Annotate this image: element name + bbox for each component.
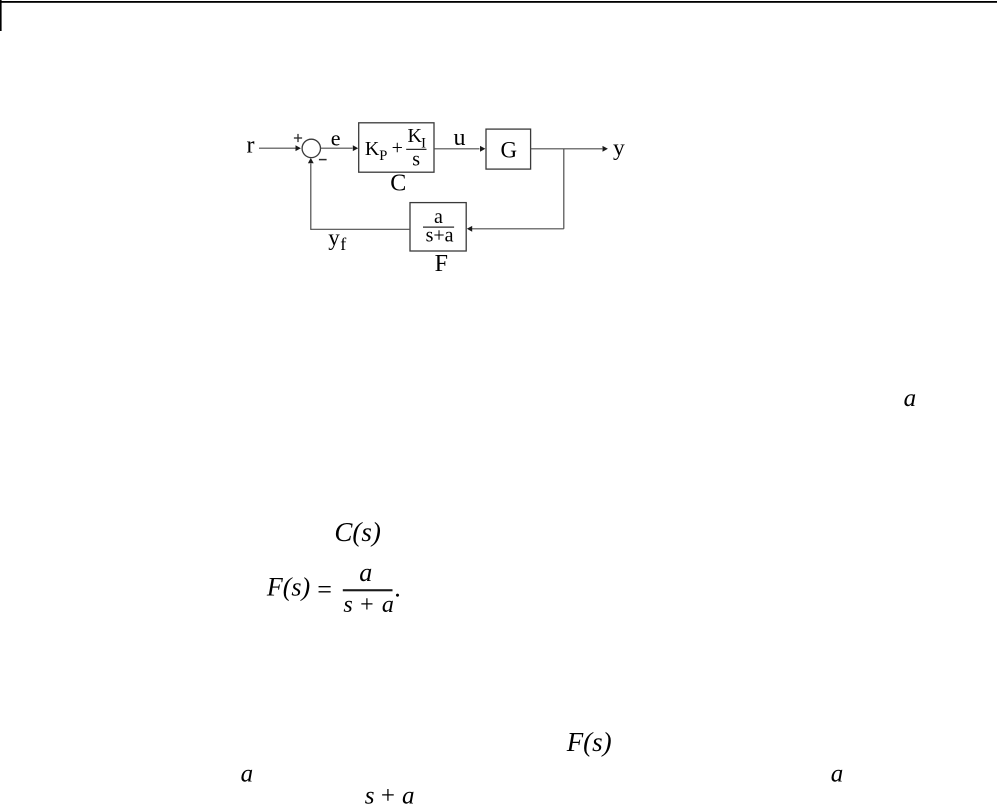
wire r to summer [259,145,301,151]
svg-text:F: F [435,251,448,277]
minus sign at summer [319,159,327,161]
svg-text:s+a: s+a [343,592,394,618]
svg-text:y: y [613,135,625,161]
wire branch junction down [563,149,565,229]
page top rule [0,1,997,3]
svg-text:F(s): F(s) [566,727,612,757]
block C rectangle [359,123,434,172]
svg-text:s: s [412,149,420,171]
wire C to G [434,146,485,152]
feedback wire into F [467,226,564,232]
block C formula fraction bar [406,148,426,150]
svg-text:.: . [394,573,401,602]
page left edge tick [0,0,2,31]
wire summer to C [321,145,359,151]
block G rectangle [486,129,531,169]
svg-text:r: r [247,133,255,159]
svg-text:a: a [359,558,372,587]
svg-text:K: K [365,138,380,160]
svg-text:C(s): C(s) [334,517,381,547]
svg-text:a: a [831,760,844,787]
svg-text:P: P [379,148,387,164]
summing junction [302,139,320,157]
svg-text:G: G [501,137,518,162]
svg-text:f: f [340,234,346,254]
math fraction bar [343,589,393,591]
svg-text:s+a: s+a [426,225,454,247]
svg-text:C: C [390,171,406,197]
svg-text:+: + [392,137,403,159]
svg-text:=: = [317,575,332,604]
svg-text:y: y [328,225,340,250]
svg-text:F(s): F(s) [266,572,310,601]
feedback wire F to left corner [311,228,410,230]
plus sign at summer [294,134,302,142]
wire G to y output [531,146,608,152]
svg-text:u: u [454,125,466,151]
feedback wire up into summer [308,158,314,230]
svg-text:a: a [904,385,917,412]
block F rectangle [410,203,466,251]
svg-text:s+a: s+a [365,782,415,805]
svg-text:a: a [241,761,254,788]
block F formula fraction bar [423,226,454,228]
svg-text:e: e [331,126,341,151]
